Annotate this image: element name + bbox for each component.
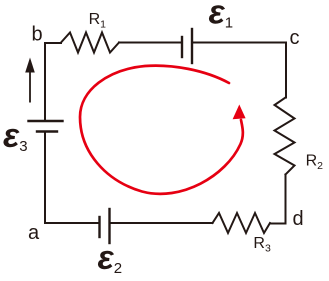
- wire E1 to c: [192, 43, 286, 98]
- battery E3: [29, 121, 63, 132]
- resistor R2: [275, 98, 295, 175]
- battery E1: [182, 29, 192, 63]
- wire top-left (b to R1): [45, 43, 61, 121]
- svg-text:d: d: [293, 208, 304, 230]
- resistor R1: [61, 33, 119, 53]
- svg-text:b: b: [32, 24, 43, 46]
- svg-text:ε2: ε2: [98, 239, 123, 277]
- current direction arrow near E3: [25, 58, 35, 103]
- svg-text:R1: R1: [89, 11, 107, 31]
- wire R1 to E1: [119, 42, 182, 44]
- resistor R3: [213, 213, 271, 233]
- svg-text:a: a: [28, 222, 40, 244]
- wire E2 to a: [45, 132, 100, 224]
- svg-text:R2: R2: [306, 153, 324, 173]
- wire R3 to E2: [110, 222, 213, 224]
- wire R2 to d: [270, 175, 286, 224]
- svg-text:c: c: [290, 27, 300, 49]
- svg-text:R3: R3: [253, 235, 271, 255]
- svg-text:ε3: ε3: [3, 117, 28, 155]
- svg-text:ε1: ε1: [209, 0, 234, 32]
- battery E2: [100, 209, 110, 243]
- loop direction arrow (red): [80, 66, 246, 194]
